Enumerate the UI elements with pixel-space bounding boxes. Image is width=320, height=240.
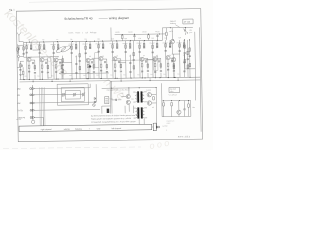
- wire interstage link 5: [146, 58, 153, 60]
- transistor Q19: [172, 54, 176, 77]
- node lower bus dots: [33, 79, 179, 83]
- switch S1 band selector MW: [17, 87, 35, 90]
- wire mid bus: [59, 72, 109, 75]
- note text below box: [168, 93, 177, 96]
- wire C20 stub: [184, 28, 186, 35]
- wire output left vertical: [111, 81, 113, 113]
- DIN socket J3: [105, 97, 109, 104]
- wire tone bus upper: [162, 99, 191, 101]
- wire left edge cluster vertical: [20, 61, 24, 79]
- wire right column stub: [190, 68, 195, 70]
- capacitor C1: [23, 52, 25, 55]
- note antenna trimmer text: [170, 20, 176, 25]
- transformer T2 output: [135, 107, 144, 118]
- wire interstage link 2: [60, 62, 72, 64]
- wire column x185: [184, 40, 186, 69]
- trimmer capacitor CT1: [62, 93, 65, 97]
- resistor R30: [166, 28, 168, 40]
- label values above supply bus: [28, 37, 181, 41]
- wire right vertical from top bus: [161, 28, 163, 40]
- transistor stage Q10 with bias network: [150, 40, 162, 78]
- title wiring diagram: [109, 16, 130, 20]
- label C44 value: [192, 107, 195, 109]
- svg-text:wiring diagram: wiring diagram: [109, 16, 130, 20]
- terminal strip labels: [41, 127, 122, 131]
- electrolytic capacitor C15 tantal: [88, 62, 91, 78]
- capacitor C42: [184, 51, 186, 54]
- wire upper bus right-mid: [115, 33, 166, 36]
- resistor R9b: [62, 59, 64, 62]
- node bus dots: [29, 40, 158, 43]
- title TR 40: [84, 16, 93, 20]
- svg-text:volume: volume: [64, 129, 70, 131]
- label output values: [146, 89, 154, 109]
- potentiometer P1 volume with switch: [16, 118, 35, 124]
- wire left edge trimmer: [19, 45, 24, 53]
- electrolytic capacitor C32: [107, 109, 110, 113]
- IF transformer can T5: [154, 56, 158, 70]
- resistor R0 input: [20, 64, 22, 67]
- ferrite antenna L1: [55, 43, 71, 55]
- resistor R33: [173, 66, 175, 69]
- footnote line 3: [91, 120, 136, 124]
- capacitor C2 input: [20, 65, 22, 67]
- switch S2 band selector LW: [17, 94, 35, 97]
- resistor R27: [163, 103, 165, 117]
- resistor R15b: [148, 35, 150, 41]
- wire to output verticals: [101, 81, 133, 114]
- transistor mixer stage Q1 with bias network: [24, 42, 36, 80]
- transistor AF stage Q8 with bias network: [123, 41, 135, 79]
- node upper bus dots: [122, 33, 160, 35]
- wire nested loop inner: [61, 87, 84, 101]
- ground antenna: [19, 75, 22, 76]
- label row output stage values: [107, 89, 130, 91]
- resistor R1: [23, 47, 25, 50]
- pickup socket J2: [93, 104, 96, 107]
- variable capacitor C20: [183, 28, 188, 33]
- resistor R34: [184, 45, 186, 48]
- resistor R32: [189, 63, 191, 66]
- footnote line 2: [91, 117, 131, 121]
- transistor IF stage Q3 with bias network: [51, 42, 63, 80]
- node right cluster dots: [173, 39, 191, 78]
- wire interstage link 1: [33, 49, 40, 51]
- wire mid link right half: [112, 59, 160, 62]
- transistor driver stage Q9 with bias network: [137, 40, 149, 78]
- wire nested loop innermost: [65, 90, 80, 99]
- note bottom view: [166, 119, 174, 124]
- antenna input jack: [17, 52, 23, 62]
- node tone bus dots: [163, 100, 189, 101]
- resistor R29: [188, 100, 190, 116]
- capacitor C1b trimmer: [17, 46, 20, 51]
- label C20 value: [189, 30, 192, 34]
- subtitle note: [68, 31, 96, 34]
- transistor Q18: [177, 101, 181, 117]
- label V16: [110, 98, 113, 100]
- trimmer capacitor CT3: [82, 93, 85, 97]
- label values right band: [115, 30, 173, 34]
- IF transformer can T4: [95, 53, 99, 68]
- resistor R31: [189, 48, 191, 51]
- wire driver vertical: [128, 88, 130, 112]
- transistor output Q17: [147, 101, 151, 105]
- annotation RFT: [178, 136, 191, 138]
- wire comb row 4: [35, 108, 100, 111]
- transistor AF stage Q7 with bias network: [110, 41, 122, 79]
- capacitor C19b: [133, 34, 135, 40]
- resistor R14b: [121, 35, 123, 41]
- capacitor C41: [189, 55, 191, 58]
- transistor IF stage Q4 with bias network: [69, 41, 81, 79]
- wire tone block feeds: [162, 83, 191, 117]
- switch S5 band selector UKW Ph: [17, 116, 35, 119]
- antenna symbol ANT: [17, 32, 23, 41]
- wire box to speaker: [152, 126, 153, 128]
- svg-text:V16: V16: [110, 98, 113, 100]
- wire long ground bus: [20, 77, 201, 80]
- wire interstage link 4: [119, 62, 126, 64]
- border frame: [16, 9, 202, 142]
- wire lower bus right half: [110, 80, 200, 81]
- svg-text:R.F.T. 105 b: R.F.T. 105 b: [178, 136, 191, 138]
- capacitor C0 input: [19, 68, 21, 71]
- wire T2 leads: [133, 108, 147, 125]
- wire main supply bus top: [24, 40, 163, 42]
- wire output stage top bus: [102, 87, 156, 90]
- node output bus dots: [111, 87, 157, 89]
- label speaker note: [162, 124, 168, 131]
- capacitor C9b: [62, 64, 64, 67]
- figure label Fig.1: [9, 9, 15, 11]
- wire interstage link 3: [92, 57, 99, 59]
- node ground bus dots: [23, 77, 190, 80]
- svg-text:balance: balance: [75, 129, 82, 131]
- transistor oscillator stage Q2 with bias network: [37, 42, 49, 80]
- svg-text:Fig. 1: Fig. 1: [9, 9, 15, 11]
- wire comb row 3: [35, 84, 97, 103]
- title Schaltschema: [64, 17, 84, 21]
- wire output collectors: [151, 87, 156, 125]
- wire input link: [17, 66, 20, 68]
- label driver values: [121, 92, 134, 100]
- wire T1 leads: [133, 92, 147, 102]
- wire ribbon to volume control: [40, 87, 45, 125]
- footnote line 1: [91, 114, 138, 118]
- loudspeaker LS1: [153, 123, 160, 131]
- transistor Q13: [170, 28, 174, 54]
- wire vertical x111.6: [110, 27, 112, 40]
- wire bus tie stubs: [33, 77, 178, 81]
- wire arrow to bus: [175, 25, 179, 28]
- switch S3 band selector KW: [17, 102, 35, 105]
- diode D2: [94, 101, 96, 103]
- wire right edge vertical: [200, 27, 201, 131]
- wire top-right bus: [162, 26, 192, 28]
- svg-text:1: 1: [82, 32, 83, 34]
- transistor stage Q11 with bias network: [163, 40, 175, 78]
- transformer T1 driver: [135, 91, 144, 102]
- svg-text:TR 40: TR 40: [84, 16, 93, 20]
- wire comb row 1: [35, 84, 91, 89]
- terminal strip box: [19, 124, 152, 131]
- note box tone control: [169, 87, 180, 92]
- resistor R25 emitter: [153, 97, 155, 100]
- wire interstage link 6: [172, 53, 180, 55]
- wire left vertical: [23, 42, 25, 57]
- wire comb row 2: [35, 93, 85, 96]
- resistor R35: [184, 59, 186, 62]
- wire comb row 5: [35, 117, 44, 126]
- svg-text:UKW Ph: UKW Ph: [17, 117, 25, 119]
- transistor driver Q15: [126, 100, 130, 104]
- svg-text:MW: MW: [17, 89, 21, 91]
- wire lower bus left half: [20, 81, 110, 82]
- svg-text:LW: LW: [17, 95, 20, 97]
- svg-text:KW: KW: [17, 103, 20, 105]
- transistor driver Q14: [121, 95, 130, 99]
- resistor R1b: [22, 67, 24, 79]
- transistor output Q16: [147, 93, 151, 97]
- transistor stage Q12 with bias network: [177, 40, 189, 78]
- wire top band lower link: [24, 56, 59, 58]
- svg-text:Schaltschema: Schaltschema: [64, 17, 84, 21]
- IF transformer can T3: [48, 58, 52, 78]
- transistor demod stage Q6 with bias network: [96, 41, 108, 79]
- wire tone bus lower: [162, 115, 191, 117]
- wire switch column vertical: [31, 85, 33, 119]
- resistor R28: [171, 103, 173, 117]
- title separator line: [99, 18, 108, 20]
- resistor R9c: [62, 69, 64, 72]
- capacitor C40: [183, 101, 185, 117]
- resistor R1c left column: [17, 44, 19, 54]
- wire x185 link: [185, 68, 190, 70]
- switch S4 band selector TA TB: [17, 109, 35, 112]
- wire right column: [189, 40, 192, 77]
- transistor IF stage Q5 with bias network: [83, 41, 95, 79]
- node top-right bus dots: [170, 27, 186, 28]
- diode D1: [94, 97, 96, 99]
- wire right inner vertical: [194, 32, 197, 101]
- label box type plate: [183, 19, 193, 24]
- wire stage x63 vertical: [62, 56, 64, 79]
- capacitor C30 coupling: [112, 99, 122, 101]
- wire nested loop outer: [57, 84, 88, 105]
- capacitor C23b: [156, 34, 158, 40]
- trimmer capacitor CT2: [73, 93, 76, 97]
